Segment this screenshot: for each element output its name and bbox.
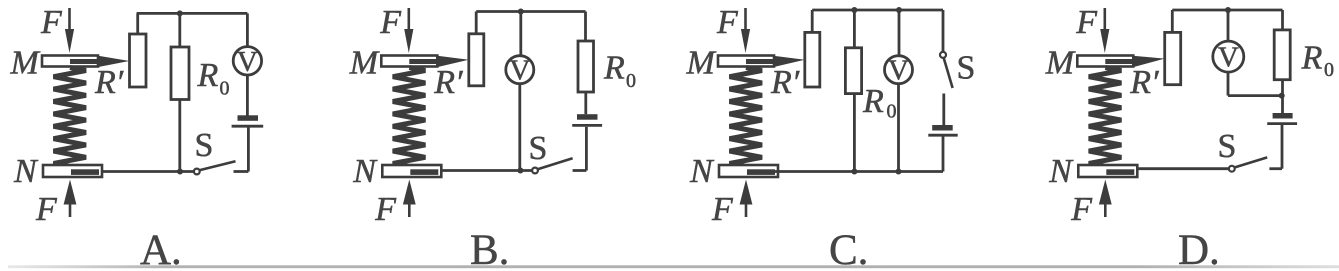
svg-text:M: M — [1045, 45, 1076, 82]
wire voltmeter to R0-battery node circuit D — [1228, 94, 1282, 97]
wiper arrow of rheostat R' circuit B — [409, 59, 442, 64]
svg-text:M: M — [349, 45, 380, 82]
resistor R0 circuit A — [171, 47, 189, 100]
rheostat body R' circuit A — [130, 34, 147, 87]
plate N circuit D — [1078, 165, 1137, 177]
svg-text:R: R — [197, 57, 219, 94]
svg-text:B.: B. — [470, 227, 509, 271]
svg-text:F: F — [1070, 191, 1093, 228]
wire voltmeter bottom circuit B — [518, 84, 521, 171]
resistor R0 circuit B — [578, 41, 594, 92]
battery circuit D — [1273, 113, 1293, 119]
wire R0 to battery circuit B — [584, 92, 587, 114]
svg-text:N: N — [689, 153, 715, 190]
wire battery to switch contact circuit D — [1281, 125, 1284, 169]
svg-text:R′: R′ — [770, 64, 800, 101]
wire R0 top circuit B — [584, 12, 587, 42]
voltmeter V circuit D — [1213, 41, 1244, 72]
rheostat body R' circuit B — [469, 34, 484, 86]
top rail wire circuit C — [812, 9, 943, 12]
bottom wire circuit C — [775, 170, 943, 173]
svg-text:F: F — [35, 191, 58, 228]
svg-text:R: R — [603, 50, 625, 87]
svg-text:R′: R′ — [94, 64, 124, 101]
plate M circuit B — [381, 56, 437, 67]
wire R0 bottom circuit C — [853, 94, 856, 172]
svg-text:M: M — [686, 45, 717, 82]
plate N circuit A — [43, 165, 102, 177]
svg-text:S: S — [1218, 128, 1237, 165]
junction node bottom circuit A — [177, 169, 183, 175]
switch S circuit D — [1234, 157, 1267, 167]
plate M circuit C — [718, 56, 774, 67]
wire voltmeter top circuit B — [519, 12, 522, 56]
junction node bottom V circuit C — [896, 169, 902, 175]
wire battery bottom circuit C — [942, 137, 945, 172]
wire R' top circuit C — [811, 10, 814, 32]
svg-text:V: V — [509, 55, 530, 87]
voltmeter V circuit B — [506, 56, 534, 84]
svg-text:S: S — [529, 130, 548, 167]
rheostat body R' circuit D — [1165, 32, 1181, 84]
force arrow F up circuit D — [1099, 180, 1112, 205]
wiper arrow of rheostat R' circuit A — [70, 59, 103, 64]
wire R' top circuit B — [475, 12, 478, 34]
plate M circuit A — [42, 56, 98, 67]
switch S circuit B — [538, 158, 573, 169]
switch S circuit A — [199, 161, 235, 170]
svg-text:N: N — [352, 153, 378, 190]
voltmeter V circuit C — [885, 56, 913, 84]
junction node R0-battery circuit D — [1279, 93, 1285, 99]
wire R0 top circuit C — [853, 10, 856, 48]
svg-text:0: 0 — [220, 78, 230, 100]
wire R0 bottom circuit A — [178, 100, 181, 172]
svg-text:N: N — [1048, 153, 1074, 190]
svg-text:R: R — [1301, 40, 1323, 77]
svg-text:R′: R′ — [433, 64, 463, 101]
junction node top circuit B — [518, 9, 524, 15]
junction node top circuit D — [1225, 7, 1231, 13]
switch S circuit C — [944, 58, 953, 88]
bottom wire circuit A — [102, 170, 194, 173]
force arrow F down circuit A — [68, 8, 71, 31]
svg-text:N: N — [13, 153, 39, 190]
wiper arrow of rheostat R' circuit D — [1105, 59, 1137, 64]
wiper arrow of rheostat R' circuit C — [746, 59, 778, 64]
svg-text:S: S — [195, 127, 214, 164]
bottom wire circuit B — [441, 169, 532, 172]
force arrow F up circuit A — [64, 180, 77, 205]
wire voltmeter top circuit D — [1227, 10, 1230, 41]
wire R' top circuit A — [136, 13, 139, 34]
rheostat body R' circuit C — [805, 32, 820, 87]
svg-text:0: 0 — [626, 70, 636, 92]
svg-text:0: 0 — [887, 101, 897, 123]
svg-text:R′: R′ — [1129, 64, 1159, 101]
top rail wire circuit D — [1172, 9, 1282, 12]
junction node top V circuit C — [896, 7, 902, 13]
svg-text:F: F — [716, 4, 739, 41]
svg-text:F: F — [374, 191, 397, 228]
force arrow F down circuit D — [1104, 8, 1107, 31]
battery circuit C — [932, 125, 953, 131]
svg-text:M: M — [10, 45, 41, 82]
spring between plates circuit A — [54, 68, 87, 167]
svg-text:F: F — [40, 4, 63, 41]
top rail wire circuit A — [137, 12, 248, 15]
junction node bottom circuit B — [517, 168, 523, 174]
spring between plates circuit D — [1089, 68, 1122, 167]
voltmeter V circuit A — [233, 47, 261, 75]
svg-text:C.: C. — [829, 227, 868, 271]
svg-text:R: R — [862, 83, 884, 120]
plate N circuit C — [719, 165, 778, 177]
wire voltmeter top circuit A — [246, 13, 249, 46]
force arrow F up circuit B — [403, 180, 416, 205]
svg-text:V: V — [1218, 42, 1239, 74]
force arrow F up circuit C — [740, 180, 753, 205]
svg-text:S: S — [957, 50, 976, 87]
wire R0 top circuit D — [1281, 10, 1284, 30]
spring between plates circuit B — [393, 68, 426, 167]
force arrow F down circuit C — [744, 8, 747, 31]
svg-text:F: F — [1075, 4, 1098, 41]
spring between plates circuit C — [730, 68, 763, 167]
wire voltmeter top circuit C — [898, 10, 901, 56]
battery circuit B — [577, 114, 598, 120]
resistor R0 circuit C — [845, 48, 861, 94]
wire switch top circuit C — [942, 10, 945, 52]
svg-text:0: 0 — [1324, 59, 1334, 81]
wire switch to battery circuit C — [942, 94, 945, 126]
battery circuit A — [238, 115, 259, 121]
force arrow F down circuit B — [407, 8, 410, 31]
resistor R0 circuit D — [1274, 30, 1290, 80]
wire R0 top circuit A — [178, 13, 181, 47]
svg-text:A.: A. — [140, 227, 182, 271]
svg-text:F: F — [379, 4, 402, 41]
wire battery to switch contact circuit A — [247, 128, 250, 172]
svg-text:V: V — [237, 46, 258, 78]
bottom wire circuit D — [1138, 167, 1229, 170]
wire voltmeter to battery circuit A — [246, 75, 249, 116]
wire battery to switch contact circuit B — [585, 127, 588, 171]
wire voltmeter bottom circuit C — [897, 84, 900, 172]
junction node top circuit A — [177, 10, 183, 16]
svg-text:F: F — [711, 191, 734, 228]
wire voltmeter down circuit D — [1227, 72, 1230, 95]
plate N circuit B — [382, 165, 441, 177]
plate M circuit D — [1077, 56, 1133, 67]
wire R0 to battery circuit D — [1281, 80, 1284, 113]
top rail wire circuit B — [476, 10, 585, 13]
wire R' top circuit D — [1171, 10, 1174, 32]
svg-text:V: V — [888, 55, 909, 87]
junction node bottom R0 circuit C — [851, 169, 857, 175]
svg-text:D.: D. — [1178, 227, 1220, 271]
junction node top R0 circuit C — [851, 7, 857, 13]
